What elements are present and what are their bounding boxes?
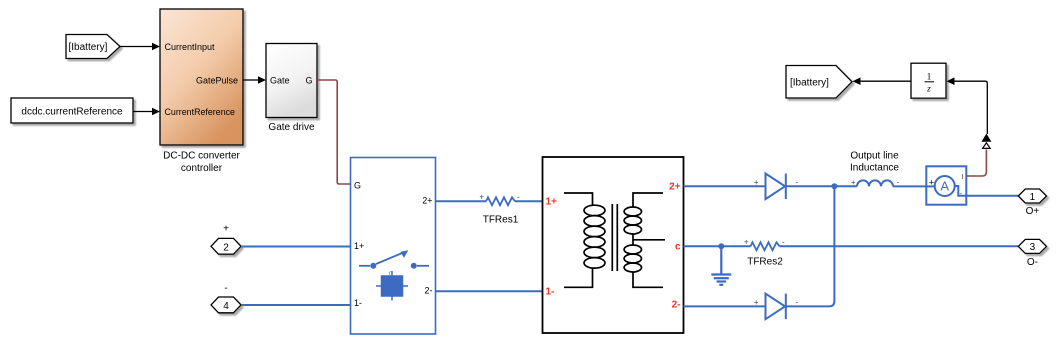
resistor TFRes2 [751, 242, 780, 250]
wire port4 to 1- [241, 304, 351, 306]
svg-text:TFRes2: TFRes2 [747, 257, 783, 268]
svg-text:CurrentReference: CurrentReference [165, 107, 236, 117]
subsystem Gate drive [266, 44, 317, 118]
svg-text:controller: controller [181, 163, 223, 174]
wire D2 up to junction [786, 186, 835, 306]
svg-text:-: - [224, 283, 227, 294]
svg-text:1: 1 [1030, 192, 1036, 203]
wire From to CurrentInput [120, 46, 153, 48]
transformer block [543, 157, 684, 333]
svg-text:n: n [389, 271, 392, 277]
wire 1/z to goto [860, 80, 911, 82]
svg-text:4: 4 [223, 301, 229, 312]
svg-text:G: G [354, 180, 361, 190]
transformer icon [564, 193, 665, 287]
svg-text:2+: 2+ [669, 182, 681, 193]
output port 3 [1018, 239, 1046, 253]
svg-text:Gate: Gate [270, 75, 290, 85]
wire port2 to 1+ [241, 246, 351, 248]
wire inductor to sensor [893, 185, 926, 187]
svg-text:O+: O+ [1026, 206, 1040, 217]
svg-text:Output line: Output line [850, 151, 899, 162]
wire TFRes1 to xfmr 1+ [515, 200, 543, 202]
svg-text:+: + [223, 224, 229, 235]
svg-text:G: G [305, 75, 312, 85]
svg-text:1: 1 [927, 73, 932, 83]
svg-text:2: 2 [223, 242, 229, 253]
current sensor [926, 166, 966, 204]
svg-text:+: + [929, 178, 934, 188]
wire GatePulse to Gate [243, 79, 259, 81]
svg-text:1+: 1+ [354, 241, 364, 251]
svg-text:[Ibattery]: [Ibattery] [69, 42, 108, 53]
wire constant to CurrentReference [133, 111, 153, 113]
svg-text:DC-DC converter: DC-DC converter [163, 151, 240, 162]
svg-text:A: A [940, 179, 949, 194]
input port 4 [211, 297, 241, 313]
inductor Output line Inductance [857, 180, 893, 186]
goto tag [Ibattery] [786, 66, 852, 99]
svg-text:+: + [744, 238, 749, 247]
svg-text:[Ibattery]: [Ibattery] [790, 77, 829, 88]
svg-text:+: + [754, 178, 759, 187]
resistor TFRes1 [486, 197, 515, 205]
wire TFRes2 to port 3 [780, 245, 1019, 247]
wire xfmr 2- to diode D2 [684, 305, 766, 307]
svg-text:-: - [782, 238, 785, 247]
diode D1 [766, 174, 786, 200]
svg-text:-: - [796, 178, 799, 187]
svg-text:CurrentInput: CurrentInput [165, 42, 216, 52]
junction node [831, 183, 837, 189]
junction node c [718, 243, 724, 249]
svg-text:I: I [962, 174, 964, 181]
svg-text:GatePulse: GatePulse [196, 75, 238, 85]
svg-text:+: + [754, 298, 759, 307]
svg-text:Gate drive: Gate drive [268, 122, 315, 133]
svg-text:2-: 2- [424, 286, 432, 296]
svg-text:Inductance: Inductance [850, 163, 899, 174]
svg-text:3: 3 [1030, 242, 1036, 253]
svg-text:1+: 1+ [546, 197, 558, 208]
subsystem DC-DC converter controller [160, 9, 243, 145]
svg-text:dcdc.currentReference: dcdc.currentReference [21, 107, 123, 118]
svg-text:c: c [675, 242, 681, 253]
svg-text:2-: 2- [672, 300, 681, 311]
svg-text:TFRes1: TFRes1 [483, 215, 519, 226]
switch icon [359, 253, 429, 266]
wire converter to 1/z [954, 81, 987, 134]
wire D1 to junction and inductor [786, 185, 857, 187]
signal wire G to switch gate (dark red) [317, 80, 351, 184]
svg-text:+: + [479, 193, 484, 202]
svg-text:z: z [926, 85, 931, 95]
svg-text:+: + [851, 178, 856, 187]
switch block (converter) [351, 158, 436, 335]
constant dcdc.currentReference [11, 98, 133, 123]
switch icon transistor square [376, 271, 408, 301]
svg-text:1-: 1- [546, 287, 555, 298]
unit delay 1/z [911, 63, 946, 98]
svg-text:-: - [796, 298, 799, 307]
PS-Simulink converter arrow [981, 134, 991, 142]
diode D2 [766, 294, 786, 320]
svg-text:-: - [897, 178, 900, 187]
wire xfmr 2+ to diode D1 [684, 185, 766, 187]
input port 2 [211, 238, 241, 254]
wire switch 2- to xfmr 1- [436, 290, 543, 292]
signal sensor I to converter (dark red) [966, 150, 986, 177]
wire switch 2+ to TFRes1 [436, 200, 487, 202]
wire xfmr c to junction [684, 245, 751, 247]
From tag [Ibattery] [66, 35, 120, 59]
wire sensor to port 1 [966, 195, 1018, 197]
svg-text:O-: O- [1027, 257, 1038, 268]
svg-text:2+: 2+ [422, 196, 432, 206]
svg-text:1-: 1- [354, 298, 362, 308]
output port 1 [1018, 189, 1046, 203]
svg-text:-: - [517, 193, 520, 202]
ground [711, 246, 731, 284]
